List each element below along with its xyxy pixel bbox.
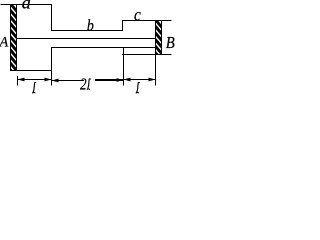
svg-text:b: b [87,18,94,35]
section a lower right edge + dim extension line [51,47,53,86]
dim l right-section right arrowhead [149,78,156,82]
wall B hatching [153,17,165,64]
dim l right-section left arrowhead [124,78,131,82]
section c left step edge (lower) + dim extension line [123,47,125,86]
shaft axis line [16,38,156,40]
label l (right dim) [136,82,139,92]
svg-text:2: 2 [80,75,87,94]
dimension 2l shaft (left part) [52,80,85,82]
label l (left dim) [33,82,36,92]
section b top edge [51,30,123,32]
svg-text:A: A [0,35,8,51]
dim 2l left arrowhead [52,79,59,83]
svg-text:c: c [134,4,141,24]
section c bottom edge + wall B bottom cap [122,54,172,56]
wall B left edge + right extension line [155,20,157,86]
dim 2l right arrowhead [117,78,124,82]
dim l right arrowhead [45,78,52,82]
dimension 2l shaft (right part) [95,79,124,81]
wall A hatching [8,1,20,81]
section a right step edge [51,5,53,32]
wall B right edge [161,20,163,55]
wall A bottom cap [10,70,52,72]
wall A left edge [10,4,12,71]
dim l left arrowhead [18,78,25,82]
dim extension line at wall A right [17,76,19,86]
section a top edge + wall A top cap [1,4,53,6]
dimension l (left) shaft [18,79,52,81]
svg-text:a: a [22,0,31,13]
section c top edge + wall B top cap [122,20,172,22]
section b bottom edge [51,47,156,49]
section c left step edge (upper) [122,20,124,31]
wall A right edge [16,4,18,71]
svg-text:B: B [166,33,175,52]
dimension l (right) shaft [124,79,156,81]
